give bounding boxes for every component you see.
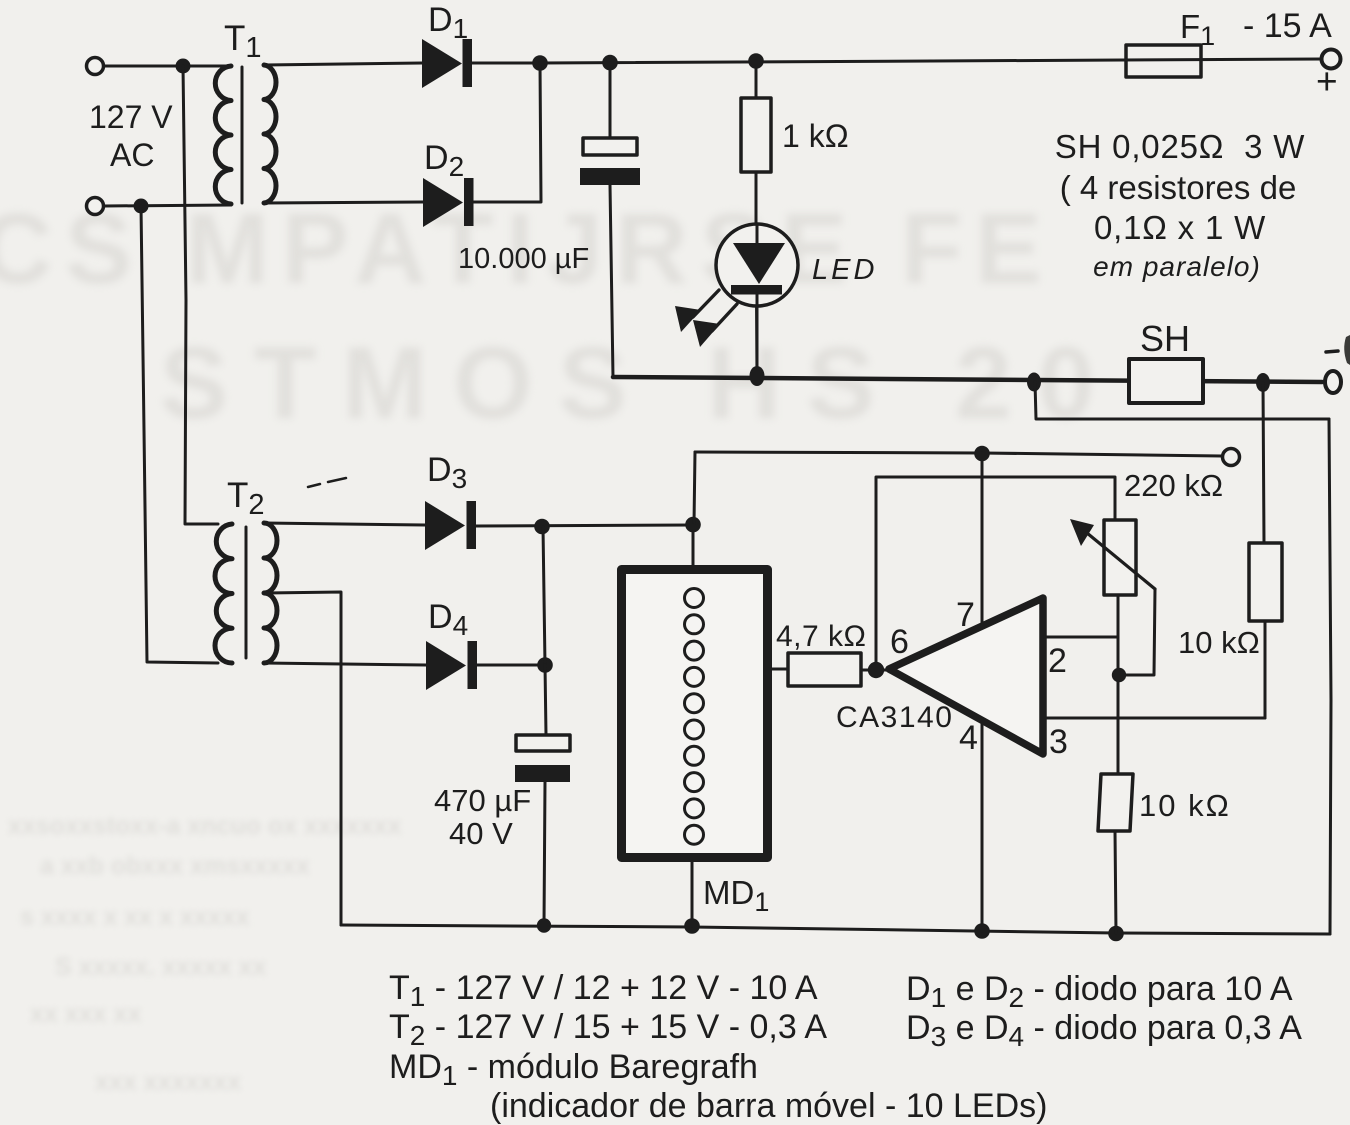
- wire 10k upper bottom to pin3 line: [1264, 621, 1267, 718]
- svg-text:SH 0,025Ω 3 W: SH 0,025Ω 3 W: [1055, 128, 1306, 165]
- potentiometer P1 wiper arrow: [1087, 533, 1155, 589]
- wire resistor R1 to LED: [755, 172, 758, 224]
- node bottom-left: [134, 199, 149, 214]
- svg-text:3: 3: [1049, 723, 1068, 761]
- faint bleed-through ghost text from reverse page: [0, 192, 1055, 307]
- LED cathode wire: [756, 294, 759, 376]
- wire MD1 output to resistor R2: [772, 668, 788, 671]
- wire potentiometer bottom through node M to 10k lower: [1117, 595, 1120, 774]
- svg-text:T1 - 127 V / 12 + 12 V - 10 A: T1 - 127 V / 12 + 12 V - 10 A: [389, 969, 818, 1012]
- wire node B down to capacitor C1: [609, 63, 612, 137]
- wire capacitor C1 to minus rail: [610, 185, 613, 377]
- resistor R1 1k: [741, 98, 771, 172]
- svg-text:D1: D1: [428, 1, 468, 44]
- svg-text:D4: D4: [428, 598, 468, 641]
- wire T1 secondary bottom to D2: [264, 202, 423, 203]
- capacitor C2 470uF negative plate: [515, 765, 570, 782]
- node C (1k resistor tap): [748, 53, 764, 69]
- wire node E down to 10k upper resistor: [1263, 383, 1264, 543]
- diode D4: [426, 641, 477, 690]
- wire pin 2 to potentiometer bottom: [1044, 636, 1118, 639]
- svg-text:MD1: MD1: [703, 874, 769, 917]
- svg-text:470 µF: 470 µF: [434, 783, 531, 818]
- transformer T1 secondary winding: [264, 65, 276, 203]
- wire D4 to node H: [477, 664, 545, 667]
- wire node to T2 primary top: [183, 66, 218, 524]
- node B (capacitor tap): [602, 55, 618, 71]
- svg-text:0,1Ω x 1 W: 0,1Ω x 1 W: [1094, 209, 1266, 246]
- svg-text:40 V: 40 V: [449, 816, 513, 851]
- wire wiper to node M: [1119, 589, 1155, 675]
- node top-left: [176, 59, 191, 74]
- resistor R2 4.7k: [788, 653, 861, 686]
- LED light arrow 2: [712, 304, 737, 331]
- potentiometer P1 220k body: [1104, 520, 1136, 595]
- wire D2 to node A: [473, 63, 541, 202]
- wire capacitor C2 to ground rail: [544, 782, 545, 925]
- terminal 220k line: [1223, 449, 1240, 466]
- svg-text:10 kΩ: 10 kΩ: [1178, 625, 1260, 660]
- wire through LED to minus rail: [756, 224, 757, 376]
- transformer T2 secondary winding: [264, 523, 277, 663]
- wire node H down to capacitor C2: [545, 665, 546, 735]
- LED light arrow 1: [693, 290, 719, 317]
- transformer T2 core: [245, 527, 248, 658]
- wire pin 3 to 10k upper bottom: [1046, 717, 1265, 720]
- terminal - output: [1325, 371, 1341, 393]
- svg-text:D3: D3: [427, 451, 467, 494]
- svg-text:220 kΩ: 220 kΩ: [1124, 468, 1223, 503]
- svg-text:1 kΩ: 1 kΩ: [782, 118, 849, 154]
- wire node to T2 primary bottom: [141, 206, 218, 663]
- node M: [1112, 668, 1126, 682]
- svg-text:4: 4: [959, 719, 978, 757]
- svg-text:- 15 A: - 15 A: [1243, 7, 1332, 45]
- wire 10k lower to ground rail: [1115, 831, 1116, 933]
- node pin6: [868, 662, 884, 678]
- wire node G up to 220k line: [694, 452, 695, 524]
- MD1 LED dots: [685, 589, 704, 845]
- svg-text:T2 - 127 V / 15 + 15 V - 0,3 A: T2 - 127 V / 15 + 15 V - 0,3 A: [389, 1008, 827, 1051]
- terminal + output: [1322, 50, 1341, 69]
- svg-text:SH: SH: [1140, 318, 1190, 359]
- transformer T2 primary winding: [215, 524, 232, 663]
- capacitor C1 10000uF negative plate: [580, 168, 640, 185]
- svg-text:10 kΩ: 10 kΩ: [1139, 788, 1231, 823]
- svg-text:CA3140: CA3140: [836, 701, 953, 734]
- scan smudge right edge: [1344, 335, 1350, 365]
- wire top-left terminal to T1 primary top: [104, 65, 231, 68]
- svg-text:em paralelo): em paralelo): [1093, 251, 1261, 282]
- node H (D4 junction): [537, 657, 553, 673]
- svg-text:( 4 resistores de: ( 4 resistores de: [1060, 169, 1297, 206]
- wire node A to positive rail: [540, 59, 1322, 63]
- wire T1 secondary top to D1: [264, 63, 422, 65]
- op-amp U1 CA3140 triangle: [889, 598, 1043, 754]
- svg-text:AC: AC: [110, 137, 154, 173]
- node K (op-amp pin4 ground): [974, 923, 990, 939]
- node I (C2 ground): [537, 918, 551, 932]
- diode D1: [422, 39, 472, 88]
- wire node C down to resistor R1: [755, 61, 758, 98]
- svg-text:MD1 - módulo Baregrafh: MD1 - módulo Baregrafh: [389, 1048, 758, 1091]
- capacitor C1 10000uF positive plate: [583, 138, 637, 155]
- svg-text:T1: T1: [224, 19, 262, 64]
- node pin7 supply: [974, 446, 990, 462]
- terminal 127V AC top: [87, 58, 104, 75]
- wire D1 to node A: [472, 62, 540, 65]
- wire T2 secondary top to D3: [264, 523, 425, 525]
- stray pen marks near T2: [308, 478, 346, 487]
- diode D2: [423, 178, 474, 227]
- fuse F1: [1126, 45, 1201, 77]
- svg-text:127 V: 127 V: [89, 99, 173, 135]
- node A (D1/D2 junction): [532, 55, 548, 71]
- node G (MD1 top): [685, 517, 701, 533]
- wire pin4 from op-amp to ground rail: [981, 721, 984, 931]
- LED anode wire inside: [756, 224, 759, 243]
- transformer T1 core: [241, 67, 244, 203]
- wire T2 center tap down to ground rail: [266, 592, 341, 925]
- diode D3: [425, 501, 476, 550]
- LED triangle: [733, 243, 785, 284]
- svg-text:4,7 kΩ: 4,7 kΩ: [776, 620, 866, 653]
- wire MD1 bottom to ground rail: [691, 862, 694, 926]
- svg-text:10.000 µF: 10.000 µF: [458, 243, 589, 275]
- svg-text:LED: LED: [812, 254, 877, 286]
- node L (10k lower ground): [1108, 926, 1124, 942]
- node E (shunt right): [1256, 373, 1270, 392]
- wire bottom-left terminal to T1 primary bottom: [104, 205, 231, 206]
- svg-text:(indicador de barra móvel - 10: (indicador de barra móvel - 10 LEDs): [490, 1087, 1047, 1125]
- svg-text:+: +: [1316, 61, 1338, 102]
- MD1 module box: [622, 570, 768, 858]
- wire feedback pin6 up and over to potentiometer: [876, 477, 1115, 670]
- svg-text:7: 7: [956, 596, 975, 634]
- LED cathode bar: [731, 285, 782, 295]
- node J (MD1 ground): [684, 918, 700, 934]
- wire ground return right edge: [1329, 419, 1331, 934]
- svg-text:F1: F1: [1180, 8, 1215, 51]
- LED circle: [716, 224, 798, 306]
- wire node H up to node F: [543, 527, 545, 665]
- wire 220k top line: [695, 452, 1222, 456]
- ground rail (bottom): [341, 925, 1330, 934]
- node D (shunt left): [1027, 373, 1041, 392]
- svg-text:D1 e D2 - diodo para 10 A: D1 e D2 - diodo para 10 A: [906, 970, 1293, 1013]
- wire node D down-right to ground return: [1035, 382, 1329, 419]
- shunt resistor SH: [1129, 359, 1203, 403]
- svg-text:D2: D2: [424, 139, 464, 182]
- minus sign above terminal: [1326, 351, 1338, 352]
- svg-text:6: 6: [890, 623, 909, 661]
- wire T2 secondary bottom to D4: [264, 663, 426, 665]
- terminal 127V AC bottom: [87, 198, 104, 215]
- node F (D3/D4 junction): [534, 519, 550, 535]
- capacitor C2 470uF positive plate: [516, 735, 570, 751]
- svg-text:T2: T2: [227, 476, 265, 521]
- transformer T1 primary winding: [215, 66, 231, 204]
- resistor 10k upper: [1249, 543, 1282, 621]
- wire node G down into MD1: [692, 525, 695, 566]
- svg-text:2: 2: [1048, 642, 1067, 680]
- node LED on minus rail: [750, 366, 765, 386]
- wire D3 to MD1 top node: [476, 525, 693, 526]
- wire resistor R2 to pin6 node: [861, 669, 889, 672]
- resistor 10k lower: [1098, 774, 1133, 831]
- minus rail (thick): [613, 377, 1322, 382]
- svg-text:D3 e D4 - diodo para 0,3 A: D3 e D4 - diodo para 0,3 A: [906, 1009, 1302, 1052]
- wire pin7 from top line down to op-amp: [981, 453, 984, 626]
